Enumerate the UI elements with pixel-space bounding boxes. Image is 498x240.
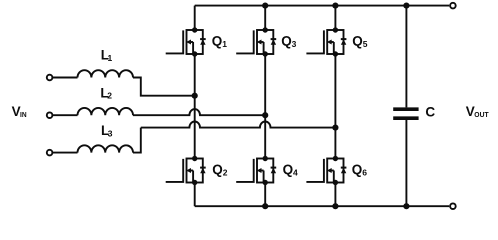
input terminal 1 (open circle) <box>47 75 53 81</box>
label L3 <box>101 123 113 138</box>
svg-text:4: 4 <box>293 168 298 178</box>
wire Q2 source to bottom bus <box>194 183 196 207</box>
transistor Q6 (N-MOSFET with body diode) <box>306 156 346 185</box>
capacitor C (plates) <box>393 109 418 118</box>
label Q1 <box>212 33 227 49</box>
svg-text:C: C <box>425 104 435 119</box>
label Q5 <box>352 33 367 49</box>
junction: top bus / branch 2 <box>262 3 268 9</box>
wire Q6 source to bottom bus <box>334 183 336 207</box>
label Q3 <box>281 33 296 49</box>
svg-text:2: 2 <box>223 168 228 178</box>
wire phase leg 2: Q3 source to Q4 drain <box>264 54 266 159</box>
junction: bottom bus / branch 4 <box>403 203 409 209</box>
junction: phase node C on leg 3 <box>332 125 338 131</box>
svg-text:6: 6 <box>362 168 367 178</box>
svg-text:Q: Q <box>212 162 223 177</box>
junction: bottom bus / branch 2 <box>262 203 268 209</box>
svg-text:Q: Q <box>212 33 223 48</box>
junction: top bus / branch 4 <box>403 3 409 9</box>
wire L2 to phase node B (hops over leg 1) <box>133 109 265 115</box>
input terminal 2 (open circle) <box>47 112 53 118</box>
svg-text:3: 3 <box>108 128 113 138</box>
svg-text:3: 3 <box>292 39 297 49</box>
wire Q1 drain to top bus <box>194 6 196 30</box>
wire bottom output bus (-) <box>195 205 450 207</box>
label Q4 <box>283 162 298 178</box>
wire phase leg 3: Q5 source to Q6 drain <box>334 54 336 159</box>
label Q6 <box>352 162 367 178</box>
svg-text:Q: Q <box>281 33 292 48</box>
junction: top bus / branch 3 <box>332 3 338 9</box>
svg-text:Q: Q <box>283 162 294 177</box>
transistor Q5 (N-MOSFET with body diode) <box>306 27 346 56</box>
wire input terminal 2 to L2 <box>52 114 77 116</box>
label L2 <box>100 85 112 100</box>
svg-text:1: 1 <box>222 39 227 49</box>
wire capacitor C to bottom bus <box>405 120 407 206</box>
wire L3 to phase node C (jog up, hops over legs 1 and 2) <box>133 128 141 153</box>
wire Q5 drain to top bus <box>334 6 336 30</box>
label VIN (input voltage) <box>12 104 27 119</box>
label L1 <box>101 48 113 63</box>
inductor L3 <box>78 145 134 152</box>
svg-text:IN: IN <box>20 110 27 119</box>
output terminal + (open circle) <box>450 3 456 9</box>
label Q2 <box>212 162 227 178</box>
svg-text:2: 2 <box>107 91 112 101</box>
wire input terminal 3 to L3 <box>52 152 77 154</box>
junction: bottom bus / branch 3 <box>332 203 338 209</box>
svg-text:Q: Q <box>352 33 363 48</box>
transistor Q3 (N-MOSFET with body diode) <box>236 27 276 56</box>
wire top bus to capacitor C <box>405 6 407 108</box>
transistor Q1 (N-MOSFET with body diode) <box>166 27 206 56</box>
wire phase leg 1: Q1 source to Q2 drain <box>194 54 196 159</box>
wire L1 to phase node A (jog down) <box>133 78 195 96</box>
svg-text:Q: Q <box>352 162 363 177</box>
svg-text:1: 1 <box>108 53 113 63</box>
wire Q3 drain to top bus <box>264 6 266 30</box>
junction: phase node A on leg 1 <box>192 93 198 99</box>
wire Q4 source to bottom bus <box>264 183 266 207</box>
wire top output bus (+) <box>195 5 450 7</box>
svg-text:5: 5 <box>363 39 368 49</box>
inductor L2 <box>78 108 134 115</box>
output terminal - (open circle) <box>450 203 456 209</box>
junction: phase node B on leg 2 <box>262 112 268 118</box>
transistor Q2 (N-MOSFET with body diode) <box>166 156 206 185</box>
inductor L1 <box>78 70 134 77</box>
transistor Q4 (N-MOSFET with body diode) <box>236 156 276 185</box>
input terminal 3 (open circle) <box>47 150 53 156</box>
label VOUT (output voltage) <box>466 104 489 119</box>
wire input terminal 1 to L1 <box>52 77 77 79</box>
svg-text:OUT: OUT <box>474 110 489 119</box>
